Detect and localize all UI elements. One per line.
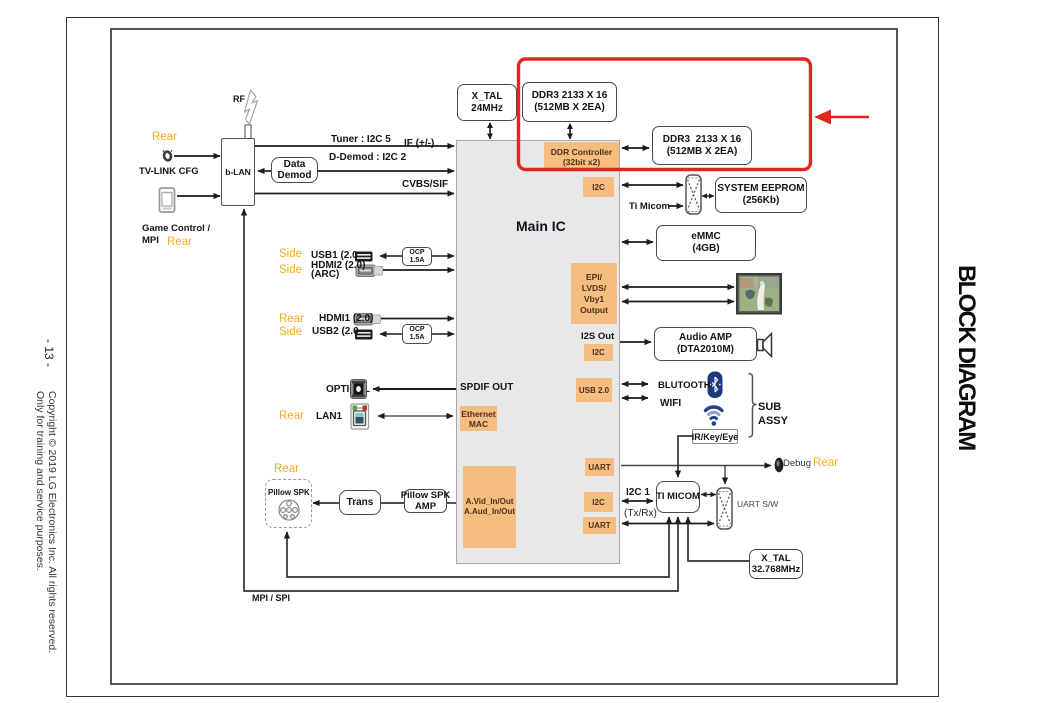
UART interface block (micom) [583, 517, 616, 534]
IF (+/-) label [404, 138, 434, 149]
Ti Micom label [629, 201, 670, 212]
page number -13- rotated [42, 339, 56, 367]
USB2 connector icon [355, 330, 373, 340]
wire UART to UART S/W double arrow [622, 523, 714, 525]
Main IC body [456, 140, 620, 564]
wire EPI to panel line 2 double arrow [622, 301, 734, 303]
TV-LINK CFG connector icon [163, 151, 172, 162]
USB2 (2.0 label [312, 326, 359, 337]
wire Ti Micom to connector [668, 205, 683, 207]
Pillow SPK AMP box [404, 489, 447, 513]
UART S/W connector (crossed) [717, 488, 732, 529]
wire X_TAL 24MHz to Main IC vertical double arrow [487, 122, 493, 140]
SUB ASSY bracket [749, 374, 757, 438]
Pillow SPK speaker icon [279, 500, 299, 520]
Trans box [339, 490, 381, 515]
DDR Controller (32bit x2) interface block [544, 142, 619, 171]
wire HDMI2 to Main IC [381, 269, 454, 271]
wire EPI to panel line 1 double arrow [622, 286, 734, 288]
A.Vid/A.Aud In/Out interface block [463, 466, 516, 548]
wire USB2.0 to bluetooth double arrow [622, 383, 648, 385]
D-Demod : I2C 2 label [329, 152, 406, 163]
HDMI1 connector icon [354, 314, 381, 326]
Game Control / MPI label [142, 223, 210, 246]
CVBS/SIF label [402, 179, 448, 190]
Main IC label [516, 218, 566, 234]
USB 2.0 interface block [576, 378, 612, 402]
Tuner : I2C 5 label [331, 134, 391, 145]
antenna RF icon [245, 90, 258, 139]
Rear label (HDMI1) [279, 313, 304, 325]
wire TI MICOM to UART S/W double arrow [701, 492, 716, 497]
wire AMP to Main IC [447, 502, 463, 504]
bluetooth icon [708, 372, 723, 399]
Ti Micom connector (crossed) [686, 175, 701, 214]
Pillow SPK label [268, 488, 310, 497]
wire TI MICOM to X_TAL 32.768 [688, 517, 749, 561]
(Tx/Rx) label [624, 508, 657, 519]
Pillow SPK dashed box [265, 479, 312, 528]
Rear label (TV-LINK) [152, 131, 177, 143]
I2C interface block (micom) [584, 492, 613, 512]
Side label (HDMI2) [279, 264, 302, 276]
wire SPDIF OUT to optical [373, 388, 456, 390]
BLUTOOTH label [658, 380, 711, 391]
wire TV-LINK CFG to b-LAN [174, 155, 220, 157]
wire Game Control to b-LAN [177, 195, 220, 197]
wire Trans to Pillow SPK [313, 502, 339, 504]
wire TI MICOM to Pillow SPK long path [287, 517, 669, 577]
copyright rotated text [34, 391, 57, 653]
Ethernet MAC interface block [460, 406, 497, 431]
Rear label (LAN1) [279, 410, 304, 422]
wire TI MICOM to b-LAN MPI/SPI long path [244, 209, 678, 591]
RF label [233, 94, 245, 104]
wire I2C 1 to TI MICOM double arrow [622, 500, 653, 502]
wire USB1 to OCP [380, 255, 402, 257]
TI MICOM box [656, 481, 700, 513]
Side label (USB1) [279, 248, 302, 260]
LAN1 connector icon [351, 404, 369, 429]
inner diagram border frame [110, 28, 898, 685]
wire Data Demod to b-LAN [258, 170, 271, 172]
red arrow pointer [814, 110, 869, 125]
wire LAN1 to Ethernet MAC double arrow [378, 415, 453, 417]
USB1 connector icon [355, 252, 373, 262]
LAN1 label [316, 411, 342, 422]
wire OCP to Main IC (USB2) [432, 333, 454, 335]
wire Data Demod to Main IC [318, 170, 454, 172]
SUB ASSY label [758, 400, 788, 428]
wire Trans to AMP [381, 502, 404, 504]
wire DDR3 top to Main IC vertical double arrow [567, 123, 573, 140]
Rear label (Debug) [813, 457, 838, 469]
wifi icon [706, 407, 723, 426]
I2S Out label on Main IC [581, 331, 614, 342]
OCP 1.5A box (USB2) [402, 324, 432, 344]
wire branch down to UART S/W connector [724, 466, 726, 485]
Game Control phone icon [160, 188, 175, 212]
wire USB2 to OCP [380, 333, 402, 335]
X_TAL 24MHz box [457, 84, 517, 121]
OPTICAL label [326, 384, 370, 395]
I2C 1 label [626, 487, 650, 498]
HDMI2 connector icon [356, 265, 383, 277]
wire CVBS/SIF b-LAN to Main IC [255, 193, 454, 195]
BLOCK DIAGRAM rotated title [952, 265, 980, 450]
wire OCP to Main IC (USB1) [432, 255, 454, 257]
DDR3 2133 X 16 box (right) [652, 126, 752, 165]
I2C interface block (top) [583, 177, 614, 197]
red highlight rectangle [519, 59, 811, 170]
b-LAN box [221, 138, 255, 206]
DDR3 2133 X 16 box (top) [522, 82, 617, 122]
Debug connector icon [775, 458, 784, 472]
eMMC box [656, 225, 756, 261]
Rear label (Pillow SPK) [274, 463, 299, 475]
wire DDR Controller to DDR3 right double arrow [622, 147, 649, 149]
EPI/LVDS/Vby1 Output interface block [571, 263, 617, 324]
wire HDMI1 to Main IC [381, 318, 454, 320]
wire tuner I2C5 b-LAN to Main IC [255, 145, 454, 147]
USB1 (2.0 label [311, 250, 358, 261]
SPDIF OUT label on Main IC [460, 382, 513, 393]
Debug label [783, 458, 811, 469]
TV-LINK CFG label [139, 166, 199, 177]
wire USB2.0 to wifi double arrow [622, 397, 648, 399]
SYSTEM EEPROM box [715, 177, 807, 213]
UART interface block (debug) [585, 458, 614, 476]
wire IR/Key/Eye to TI MICOM [678, 436, 692, 477]
OCP 1.5A box (USB1) [402, 247, 432, 266]
Data Demod box [271, 157, 318, 183]
IR/Key/Eye box [692, 429, 738, 444]
wire I2C to connector double arrow [622, 184, 683, 186]
I2C interface block (audio) [584, 344, 613, 361]
X_TAL 32.768MHz box [749, 549, 803, 579]
Side label (USB2) [279, 326, 302, 338]
HDMI1 (2.0) label [319, 313, 373, 324]
Audio AMP speaker icon [758, 334, 772, 357]
UART S/W label [737, 499, 778, 509]
HDMI2 (2.0) (ARC) label [311, 262, 365, 279]
WIFI label [660, 398, 681, 409]
Audio AMP box [654, 327, 757, 361]
Rear label (game control) [167, 236, 192, 248]
wire connector to SYSTEM EEPROM double arrow [702, 193, 714, 198]
MPI / SPI label [252, 593, 290, 603]
TV panel picture [737, 274, 781, 314]
optical connector icon [351, 380, 367, 399]
wire UART to Debug [621, 465, 771, 467]
wire Main IC to eMMC double arrow [622, 241, 653, 243]
wire I2S Out to Audio AMP [620, 341, 651, 343]
